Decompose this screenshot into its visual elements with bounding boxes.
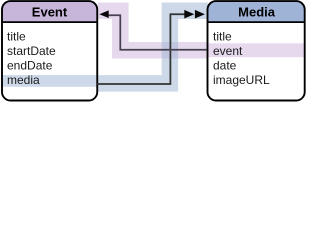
entity Event header fill <box>2 1 97 22</box>
svg-text:media: media <box>7 73 40 87</box>
wire: Event.media to Media (to-many) <box>97 14 186 84</box>
wire: Media.event to Event (to-one) <box>108 15 207 50</box>
entity Media header fill <box>208 1 305 22</box>
entity Media body fill <box>208 1 305 100</box>
svg-text:startDate: startDate <box>7 44 56 58</box>
wire band: Media.event -> Event (pink highlight path) <box>98 11 208 50</box>
node: event row highlight in Media <box>208 43 303 57</box>
svg-text:title: title <box>7 29 26 43</box>
arrowhead: to-many double arrow at Media <box>184 10 194 19</box>
arrowhead: to-one arrow at Event <box>99 10 108 18</box>
entity Event header separator <box>2 21 97 23</box>
svg-text:endDate: endDate <box>7 58 53 72</box>
entity Media border <box>208 1 305 100</box>
entity Media header separator <box>208 21 305 23</box>
svg-text:date: date <box>213 58 237 72</box>
entity Event border <box>2 1 97 100</box>
entity Event body fill <box>2 1 97 100</box>
svg-text:event: event <box>213 44 243 58</box>
svg-text:Media: Media <box>238 4 276 19</box>
svg-text:title: title <box>213 29 232 43</box>
wire band: Event.media -> Media (blue highlight path) <box>97 11 208 84</box>
node: media row highlight in Event <box>3 75 97 87</box>
svg-text:imageURL: imageURL <box>213 73 270 87</box>
svg-text:Event: Event <box>32 4 68 19</box>
